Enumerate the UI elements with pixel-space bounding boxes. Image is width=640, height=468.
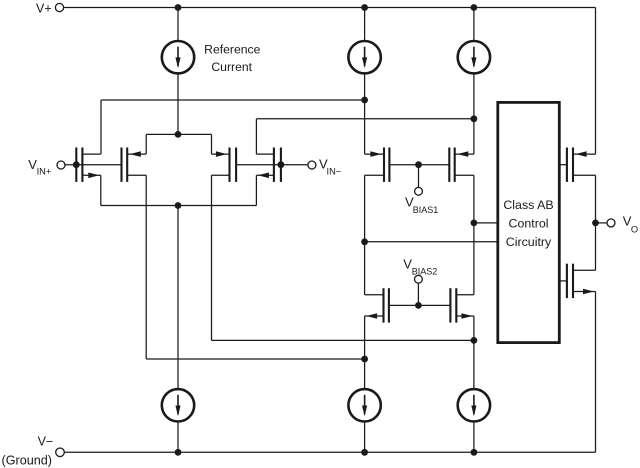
transistor M9 (output PMOS) bbox=[566, 148, 568, 182]
terminal V- (Ground) bbox=[56, 448, 65, 457]
wire VIN- to input gates bbox=[236, 164, 308, 166]
wire I5 to V- rail bbox=[364, 422, 366, 453]
wire B to I5 column bbox=[146, 358, 364, 360]
wire I6 to V- rail bbox=[473, 422, 475, 453]
wire V+ rail bbox=[64, 7, 596, 9]
wire M5 source down to M7 drain bbox=[364, 175, 366, 294]
wire M6 source down to M8 drain bbox=[473, 175, 475, 294]
wire VBIAS1 stub bbox=[418, 165, 420, 188]
wire M2 source riser bbox=[145, 134, 147, 154]
node junction M4 drain connect bbox=[471, 115, 478, 122]
svg-text:Reference: Reference bbox=[204, 42, 260, 56]
node junction nmos tail bbox=[175, 202, 182, 209]
wire I3 to M6 drain bbox=[473, 73, 475, 154]
current source I2 (top middle) bbox=[348, 41, 380, 73]
svg-text:Control: Control bbox=[509, 216, 549, 230]
wire class AB to M9 gate bbox=[559, 164, 567, 166]
wire M7 source down to I5 bbox=[364, 316, 366, 389]
node junction wire B join bbox=[361, 356, 368, 363]
wire A to I6 column bbox=[212, 339, 474, 341]
wire M9 drain to output node bbox=[595, 175, 597, 270]
terminal VIN- bbox=[308, 161, 316, 169]
wire M1 drain to I2 branch bbox=[101, 99, 365, 101]
transistor M10 (output NMOS) bbox=[566, 264, 568, 298]
terminal VBIAS2 bbox=[415, 275, 423, 283]
wire M4 drain to I3 branch bbox=[256, 118, 474, 120]
node junction output bbox=[592, 220, 599, 227]
wire V+ rail to I1 bbox=[177, 8, 179, 42]
node junction VIN- gate bbox=[278, 161, 285, 168]
svg-text:IN−: IN− bbox=[327, 166, 342, 176]
svg-text:Circuitry: Circuitry bbox=[506, 235, 552, 249]
transistor M1 (input NMOS left) bbox=[75, 148, 77, 182]
wire M7 M8 gates bbox=[389, 304, 451, 306]
svg-text:(Ground): (Ground) bbox=[2, 453, 53, 467]
current source I1 (reference) bbox=[162, 41, 194, 73]
svg-text:BIAS1: BIAS1 bbox=[413, 205, 439, 215]
wire V+ rail to I2 bbox=[364, 8, 366, 42]
node junction class AB feed 1 bbox=[471, 220, 478, 227]
wire VBIAS2 stub bbox=[417, 283, 419, 306]
node junction bottom rail x364 bbox=[361, 449, 368, 456]
transistor M6 (cascode PMOS right) bbox=[448, 148, 450, 182]
node junction class AB feed 2 bbox=[361, 238, 368, 245]
wire M5 source to class AB box bbox=[365, 241, 497, 243]
terminal VBIAS1 bbox=[415, 187, 423, 195]
wire M3 drain down bbox=[211, 175, 213, 340]
node junction VBIAS2 gate bbox=[415, 302, 422, 309]
current source I6 (bottom right) bbox=[458, 389, 490, 421]
wire V- rail bbox=[64, 451, 595, 453]
wire class AB to M10 gate bbox=[559, 280, 567, 282]
current source I3 (top right) bbox=[458, 41, 490, 73]
svg-text:BIAS2: BIAS2 bbox=[412, 267, 438, 277]
node junction pmos sources bbox=[175, 131, 182, 138]
transistor M7 (cascode NMOS left) bbox=[388, 288, 390, 322]
wire M8 source down to I6 bbox=[473, 316, 475, 389]
wire V+ rail down to M9 bbox=[595, 8, 597, 155]
node junction bottom rail x474 bbox=[471, 449, 478, 456]
svg-text:Current: Current bbox=[211, 60, 252, 74]
wire I1 to pmos source node bbox=[177, 73, 179, 134]
svg-text:V−: V− bbox=[38, 435, 54, 449]
wire M6 source to class AB box bbox=[474, 222, 497, 224]
wire pmos source node bbox=[146, 133, 211, 135]
wire M10 source to V- rail bbox=[595, 292, 597, 453]
terminal V+ bbox=[55, 3, 63, 11]
wire M4 drain riser bbox=[255, 119, 257, 154]
wire I4 to V- rail bbox=[177, 422, 179, 453]
wire M1 drain riser bbox=[100, 100, 102, 154]
node junction VBIAS1 gate bbox=[415, 161, 422, 168]
node junction top rail x474 bbox=[471, 4, 478, 11]
block U1 Class AB Control Circuitry bbox=[498, 102, 560, 342]
node junction M1 drain connect bbox=[361, 97, 368, 104]
svg-text:Class AB: Class AB bbox=[503, 198, 553, 212]
svg-text:IN+: IN+ bbox=[37, 166, 52, 176]
wire V+ rail to I3 bbox=[473, 8, 475, 42]
node junction top rail x364 bbox=[361, 4, 368, 11]
wire M1 source riser bbox=[100, 175, 102, 205]
terminal VO bbox=[607, 219, 615, 227]
terminal VIN+ bbox=[57, 161, 65, 169]
node junction bottom rail x178 bbox=[175, 449, 182, 456]
wire M4 source riser bbox=[255, 175, 257, 205]
wire I2 to M5 drain bbox=[364, 73, 366, 154]
wire VIN+ to input gates bbox=[65, 164, 122, 166]
wire M5 M6 gates bbox=[389, 164, 449, 166]
wire M2 drain down bbox=[145, 175, 147, 359]
transistor M8 (cascode NMOS right) bbox=[449, 288, 451, 322]
transistor M3 (input PMOS right) bbox=[235, 148, 237, 182]
svg-text:V+: V+ bbox=[36, 2, 52, 16]
node junction VIN+ gate bbox=[73, 161, 80, 168]
node junction wire A join bbox=[471, 337, 478, 344]
current source I4 (bottom left) bbox=[162, 389, 194, 421]
wire M3 source riser bbox=[211, 134, 213, 154]
svg-text:O: O bbox=[631, 225, 638, 235]
current source I5 (bottom middle) bbox=[348, 389, 380, 421]
wire nmos tail to I4 bbox=[177, 206, 179, 390]
wire output stub bbox=[596, 222, 608, 224]
transistor M2 (input PMOS left) bbox=[120, 148, 122, 182]
transistor M4 (input NMOS right) bbox=[280, 148, 282, 182]
transistor M5 (cascode PMOS left) bbox=[388, 148, 390, 182]
node junction top rail x178 bbox=[175, 4, 182, 11]
wire nmos tail node bbox=[101, 205, 257, 207]
